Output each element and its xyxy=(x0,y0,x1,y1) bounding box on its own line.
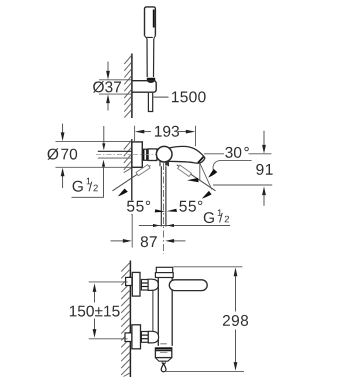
dim 193 extension lines xyxy=(134,126,136,142)
dim Ø70 extension lines xyxy=(56,140,132,142)
hex connector (side) xyxy=(142,149,148,160)
outlet nozzle tip xyxy=(162,361,165,363)
tick above outlet xyxy=(160,343,167,345)
supply pipe through wall xyxy=(98,150,132,152)
head taper xyxy=(145,36,156,39)
leader 1500 xyxy=(154,96,169,98)
30° underline + curve leader xyxy=(213,160,252,169)
dim 150±15 extension lines xyxy=(89,281,128,283)
label 55° left xyxy=(126,201,153,215)
body neck xyxy=(160,162,168,167)
inner tube line xyxy=(152,290,154,331)
handle end cap (dark) xyxy=(147,78,155,83)
30° arrowhead xyxy=(208,169,217,178)
298 top extension line xyxy=(173,266,242,268)
outlet 30° axis line xyxy=(200,163,212,190)
holder bracket xyxy=(132,81,156,93)
label G1/2 left xyxy=(73,178,98,192)
outlet vertical reference xyxy=(199,164,201,181)
dim 298 line + arrows xyxy=(234,268,238,277)
dim 91 line top xyxy=(263,131,265,146)
dim 150±15 line + arrows xyxy=(93,283,97,292)
dim Ø70 arrows xyxy=(62,124,64,133)
55° right arrowhead xyxy=(202,191,212,199)
G1/2 caliper arrow lower + leader xyxy=(102,160,105,167)
wall (middle view) xyxy=(131,139,133,215)
G1/2 caliper arrow upper xyxy=(103,126,105,144)
upper escutcheon xyxy=(132,272,140,296)
label 150±15 xyxy=(70,306,120,317)
water drop xyxy=(161,364,166,372)
hose stub xyxy=(148,93,152,112)
lever handle xyxy=(169,280,207,291)
wall hatching (middle view) xyxy=(124,141,131,173)
body top cap xyxy=(156,267,172,272)
wall (bottom view) xyxy=(129,261,131,378)
dim Ø37 arrows xyxy=(107,62,109,72)
escutcheon (side) xyxy=(132,142,142,167)
55° right nib xyxy=(178,165,192,176)
dim 87 left extension (wall plane continued) xyxy=(131,215,133,248)
wall (top view) xyxy=(131,54,133,119)
lower union nut (rounded) xyxy=(148,331,158,343)
spout xyxy=(168,147,205,164)
55° left nib xyxy=(136,165,150,176)
mixer body circle xyxy=(156,146,172,162)
label 298 xyxy=(223,315,248,326)
upper supply stub behind wall xyxy=(126,277,132,285)
dim 87 line + arrows xyxy=(111,240,124,242)
outlet pipe down xyxy=(161,166,166,226)
upper union nut (rounded) xyxy=(148,279,158,290)
label 55° right xyxy=(179,201,202,212)
label 91 xyxy=(256,164,272,175)
label 193 xyxy=(155,126,179,137)
dim Ø37 extension lines xyxy=(99,79,132,81)
label Ø70 xyxy=(47,148,77,160)
label Ø37 xyxy=(93,81,121,93)
union nut (side) xyxy=(148,149,157,161)
label 87 xyxy=(141,236,157,247)
centerline xyxy=(163,163,165,254)
label G1/2 right xyxy=(204,209,229,223)
30° reference line left segment xyxy=(204,153,224,155)
dim 91 line bottom xyxy=(263,195,265,206)
dim 193 line + arrows xyxy=(144,131,151,133)
55° vertex arrows at centerline xyxy=(155,209,166,212)
lower supply stub behind wall xyxy=(125,333,132,342)
spout outlet face (dark) xyxy=(198,157,203,163)
body tube xyxy=(158,278,172,346)
55° left leg line xyxy=(113,166,151,191)
wall hatching (top view) xyxy=(124,56,131,118)
298 bottom extension line xyxy=(166,370,244,372)
55° left arrowhead xyxy=(118,189,128,197)
30° reference line right segment (91 top ext) xyxy=(249,153,272,155)
head shading line xyxy=(153,10,155,28)
55° right leg line xyxy=(177,165,216,191)
label 30° xyxy=(225,147,249,158)
arrowhead on outlet axis xyxy=(187,178,199,182)
lower escutcheon xyxy=(132,325,141,349)
inlet axis centerline xyxy=(96,154,131,156)
neck shadow xyxy=(165,162,168,166)
bottom outlet flange xyxy=(155,348,171,358)
handle shaft xyxy=(147,39,154,77)
lower hex nut xyxy=(141,332,148,343)
inlet centerline over parts xyxy=(132,154,158,156)
hand shower head xyxy=(145,7,156,36)
G1/2 right leader/underline xyxy=(139,225,230,227)
wall hatching (bottom view) xyxy=(121,263,130,377)
outlet taper xyxy=(155,358,171,362)
upper hex nut xyxy=(141,280,148,291)
dim 91 bottom extension xyxy=(213,184,272,186)
label 1500 xyxy=(172,91,206,102)
